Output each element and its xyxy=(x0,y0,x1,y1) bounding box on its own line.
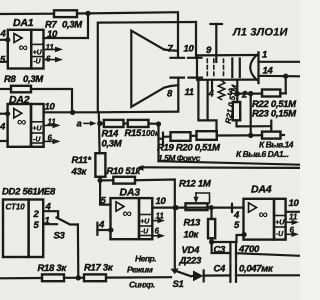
resistor R19 xyxy=(171,132,191,141)
R13 bottom node xyxy=(209,239,214,244)
switch S1 arm with arrow xyxy=(174,270,191,276)
svg-text:DA3: DA3 xyxy=(120,187,141,199)
svg-text:+U: +U xyxy=(33,50,43,57)
node R11/R10 junction xyxy=(98,178,103,183)
svg-text:∞: ∞ xyxy=(17,114,26,129)
wire pin4 DD2 to S3 xyxy=(43,211,58,218)
svg-text:10к: 10к xyxy=(184,230,200,241)
svg-text:R10 51к: R10 51к xyxy=(107,166,142,177)
svg-text:R18 3к: R18 3к xyxy=(38,263,68,274)
pin 4 wire DA1 xyxy=(0,39,8,41)
resistor R21 vertical xyxy=(233,102,240,120)
svg-text:DA4: DA4 xyxy=(251,184,272,196)
svg-text:0,3M: 0,3M xyxy=(102,139,123,150)
wire S3 down to bottom rail xyxy=(77,225,80,278)
pin 4 terminal bar DA3 xyxy=(96,223,98,235)
CRT anode electrodes xyxy=(232,59,240,78)
wire X down xyxy=(157,124,159,161)
wire a-node bus level y123 xyxy=(100,122,104,124)
node X R15 right xyxy=(156,121,161,126)
node a marker xyxy=(77,119,97,130)
svg-text:СТ10: СТ10 xyxy=(6,203,26,212)
resistor R10 xyxy=(113,177,135,184)
svg-text:Синхр.: Синхр. xyxy=(129,280,155,290)
CRT heater zigzag pin 3 xyxy=(218,81,225,100)
wire R17 right to S1 xyxy=(106,276,171,279)
svg-text:К Выв.6 DA1...: К Выв.6 DA1... xyxy=(236,149,289,159)
wire R22 right drop xyxy=(285,76,287,93)
op-amp DA1 xyxy=(8,30,44,69)
svg-text:R19 R20 0,51M: R19 R20 0,51M xyxy=(157,143,221,154)
svg-text:К Выв.14: К Выв.14 xyxy=(259,140,294,150)
svg-text:14: 14 xyxy=(263,66,274,77)
svg-text:10: 10 xyxy=(45,102,56,113)
resistor R15 xyxy=(128,120,149,127)
node DA3 out drop xyxy=(172,205,177,210)
resistor R11 vertical trimmer xyxy=(95,153,105,177)
svg-text:С3: С3 xyxy=(214,245,227,256)
svg-text:R12 1M: R12 1M xyxy=(179,179,212,190)
svg-text:a: a xyxy=(77,119,82,130)
svg-text:-U: -U xyxy=(33,59,41,66)
wire R13 to DA4 pin5 xyxy=(212,235,244,242)
wire C4 right xyxy=(236,274,300,276)
counter DD2 xyxy=(3,200,43,258)
terminal bar R19 left xyxy=(162,133,164,145)
wire R8 left xyxy=(0,88,11,90)
svg-text:DA1: DA1 xyxy=(13,17,34,29)
bus down to DA3 pin5 xyxy=(100,180,110,204)
pin 1 wire xyxy=(259,61,301,63)
svg-text:+U: +U xyxy=(140,219,150,226)
wire plate 10 drop xyxy=(195,22,197,58)
CRT beam triangle xyxy=(131,31,178,107)
screen arc xyxy=(250,55,256,79)
node DA4 pin5 input xyxy=(241,232,246,237)
pin input wire DA2 xyxy=(0,113,8,115)
svg-text:0,3M: 0,3M xyxy=(62,20,83,31)
terminal bar K vyv.14 xyxy=(270,121,272,131)
svg-text:R23 0,15M: R23 0,15M xyxy=(252,109,297,120)
svg-text:R11*: R11* xyxy=(72,155,93,166)
wire pin1 DD2 xyxy=(43,223,57,225)
wire R13 node down to C3 xyxy=(212,242,230,253)
svg-text:10: 10 xyxy=(156,196,167,207)
pin 9 terminal xyxy=(211,24,223,62)
svg-text:∞: ∞ xyxy=(19,40,28,55)
node R23 left xyxy=(248,133,253,138)
wire branch to R19 terminal xyxy=(159,138,163,140)
node R8 drop junction xyxy=(70,110,75,115)
node a junction xyxy=(97,121,102,126)
svg-text:100к: 100к xyxy=(142,129,160,138)
wire focus electrode stem xyxy=(207,80,209,120)
svg-text:S3: S3 xyxy=(54,231,66,242)
wire plate 11 to focus net xyxy=(198,78,216,132)
svg-text:11: 11 xyxy=(185,87,194,98)
node junction R7/DA1 out xyxy=(85,11,90,16)
CRT pin 2 stem xyxy=(236,80,238,102)
node pin14/R22 junction xyxy=(283,74,288,79)
svg-text:DA2: DA2 xyxy=(9,94,30,106)
svg-text:R17 3к: R17 3к xyxy=(84,263,114,274)
CRT grid dashed electrodes xyxy=(207,59,223,76)
svg-text:С4: С4 xyxy=(214,264,227,275)
node S3 rail junction xyxy=(76,275,81,280)
wire R11 bottom xyxy=(99,177,101,181)
CRT pin 4 stem xyxy=(211,80,213,90)
svg-text:DD2 561ИЕ8: DD2 561ИЕ8 xyxy=(2,187,56,198)
pin lower wire DA2 xyxy=(0,140,8,142)
resistor R18 xyxy=(42,274,64,281)
bottom rail wire xyxy=(0,277,42,279)
svg-text:-U: -U xyxy=(33,137,41,144)
resistor R22 xyxy=(262,90,280,97)
R12 wiper arrow xyxy=(196,193,210,203)
svg-text:2: 2 xyxy=(33,209,40,220)
svg-text:Д223: Д223 xyxy=(179,256,203,267)
wire to R19 xyxy=(163,136,171,138)
svg-text:10: 10 xyxy=(289,198,300,209)
svg-text:0,047мк: 0,047мк xyxy=(239,264,274,275)
resistor R20 xyxy=(197,131,217,140)
svg-text:11: 11 xyxy=(289,213,298,222)
diode VD4 xyxy=(191,270,204,281)
long wire upper to pin6 DA1 xyxy=(159,161,301,165)
pin 4 terminal bar DA4 xyxy=(231,204,233,212)
wire R20 right to R23 xyxy=(217,134,251,136)
svg-text:-U: -U xyxy=(276,231,284,238)
wire DA1 output pin 10 xyxy=(44,13,89,38)
pin 10 wire DA4 xyxy=(286,211,300,213)
op-amp DA2 xyxy=(8,104,44,147)
svg-text:R15: R15 xyxy=(125,128,143,139)
svg-text:11: 11 xyxy=(46,43,55,52)
resistor R17 xyxy=(84,274,106,281)
deflection plates 7/10 upper xyxy=(171,57,202,59)
svg-text:10: 10 xyxy=(184,44,195,55)
pin 5 wire DA1 xyxy=(0,61,8,63)
wire C3 right xyxy=(236,253,300,256)
svg-text:+U: +U xyxy=(32,126,42,133)
svg-text:43к: 43к xyxy=(71,167,88,178)
svg-text:Л1 3ЛO1И: Л1 3ЛO1И xyxy=(232,27,288,39)
svg-text:S1: S1 xyxy=(173,279,184,290)
deflection plates 8/11 lower xyxy=(171,76,203,78)
svg-text:∞: ∞ xyxy=(259,207,268,222)
wire DA2 output to frame corner xyxy=(44,111,98,113)
wire R10 left xyxy=(100,179,113,181)
wire R21 bottom to terminal xyxy=(237,120,272,126)
svg-text:4: 4 xyxy=(208,89,215,100)
svg-text:2: 2 xyxy=(241,90,248,101)
node pin2/R22 wire xyxy=(235,91,240,96)
CRT tube L1 3LO1I xyxy=(197,53,259,84)
svg-text:0,3M: 0,3M xyxy=(23,74,44,85)
bus x99.8 down from frame xyxy=(98,112,101,153)
svg-text:Непр.: Непр. xyxy=(135,254,156,264)
node R12 left xyxy=(173,205,178,210)
deflection frame wire: plate8/plate10 loop xyxy=(98,22,196,112)
svg-text:4: 4 xyxy=(98,220,105,231)
long wire lower with arrow xyxy=(140,166,300,169)
wire diode to C4 xyxy=(204,274,230,276)
op-amp DA4 xyxy=(244,199,286,240)
wire drop x250.5 xyxy=(250,94,252,136)
wire R8 right to DA2 out xyxy=(31,89,72,112)
wire top feedback from x0 to plate 7 drop xyxy=(0,13,54,16)
svg-text:1: 1 xyxy=(262,50,267,61)
svg-text:10: 10 xyxy=(47,29,58,40)
resistor R7 xyxy=(54,10,77,17)
node R12 right / R13 top xyxy=(209,205,214,210)
svg-text:∞: ∞ xyxy=(123,206,132,221)
wire DA3 output xyxy=(152,207,243,209)
pin 14 wire xyxy=(259,75,301,78)
svg-text:R8: R8 xyxy=(4,74,17,85)
capacitor C3 xyxy=(230,244,236,262)
wire R10 right to DA3 out drop xyxy=(135,180,175,268)
resistor R12 potentiometer xyxy=(186,203,208,210)
svg-text:R13: R13 xyxy=(184,218,202,229)
envelope xyxy=(197,53,259,56)
capacitor C4 xyxy=(230,264,236,282)
svg-text:VD4: VD4 xyxy=(182,245,201,256)
resistor R8 xyxy=(11,86,31,93)
resistor R14 xyxy=(104,120,124,127)
node R22 left / drop to R23 xyxy=(248,91,253,96)
svg-text:+U: +U xyxy=(275,220,285,227)
svg-text:-U: -U xyxy=(141,229,149,236)
svg-text:Режим: Режим xyxy=(127,265,154,275)
resistor R23 xyxy=(262,132,281,139)
switch S3 arm xyxy=(57,218,78,225)
op-amp DA3 xyxy=(111,198,153,239)
pin 4 wire DA3 xyxy=(97,229,110,231)
resistor R13 vertical xyxy=(208,219,215,238)
